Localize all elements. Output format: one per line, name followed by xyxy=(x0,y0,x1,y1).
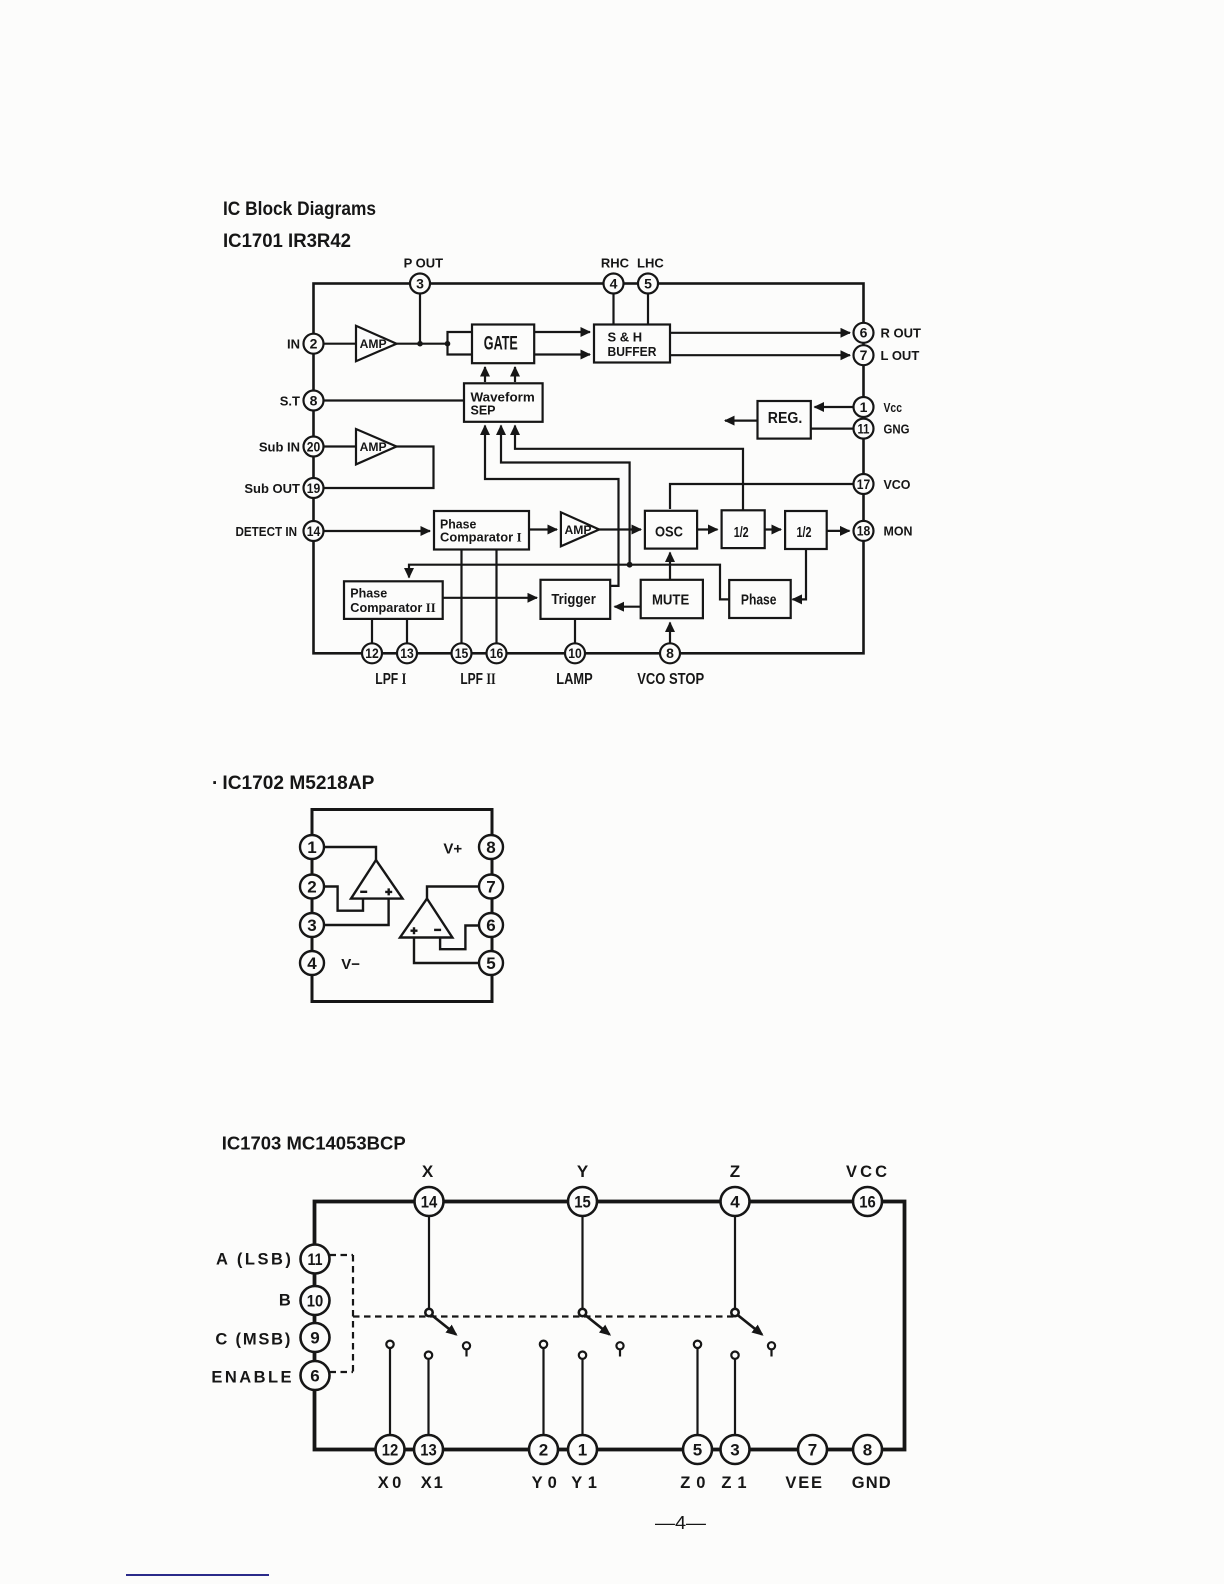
pin 8 GND xyxy=(853,1435,882,1464)
switch X arm xyxy=(432,1315,456,1334)
wire S&H BUFFER to pin6 R OUT xyxy=(670,332,850,334)
svg-text:V−: V− xyxy=(341,956,360,973)
svg-text:Comparator II: Comparator II xyxy=(350,600,435,615)
block OSC xyxy=(645,511,697,549)
svg-text:REG.: REG. xyxy=(768,410,803,427)
svg-text:VCC: VCC xyxy=(846,1163,887,1181)
pin 16 LPF II xyxy=(487,643,507,663)
svg-text:IC1702 M5218AP: IC1702 M5218AP xyxy=(222,773,374,794)
wire Phase Comparator I to AMP A3 xyxy=(529,528,557,530)
block REG. xyxy=(758,401,811,439)
IC1702 package outline xyxy=(312,810,492,1002)
svg-text:—4—: —4— xyxy=(655,1513,706,1533)
wire pin4 RHC drop to S&H xyxy=(612,293,614,325)
svg-text:2: 2 xyxy=(310,336,318,352)
svg-text:S & H: S & H xyxy=(608,330,643,345)
wire pin7 to op-amp U2 output apex xyxy=(427,887,480,899)
contact Z0 post xyxy=(694,1341,701,1437)
block MUTE xyxy=(641,580,703,618)
wire pin10 LAMP to Trigger bottom xyxy=(574,619,576,643)
svg-text:8: 8 xyxy=(486,838,495,857)
svg-text:X0: X0 xyxy=(378,1474,402,1492)
svg-text:VCO: VCO xyxy=(884,477,911,492)
pin 2 xyxy=(300,875,324,899)
svg-text:8: 8 xyxy=(310,392,318,408)
pin 10 LAMP xyxy=(565,643,585,663)
svg-text:Phase: Phase xyxy=(741,593,777,609)
wire pin4 Z stem xyxy=(734,1215,736,1309)
wire Phase Comparator II to pin13 xyxy=(406,619,408,643)
contact Y1 post xyxy=(579,1352,586,1437)
dashed control stub from pin 6 xyxy=(330,1371,354,1373)
pin 6 xyxy=(479,913,503,937)
switch Y throw terminal xyxy=(616,1342,623,1356)
wire pin8 VCO STOP to MUTE xyxy=(669,623,671,644)
pin 15 LPF II xyxy=(452,643,472,663)
svg-text:L OUT: L OUT xyxy=(881,348,920,363)
svg-text:5: 5 xyxy=(644,276,652,292)
op-amp U1 minus mark xyxy=(360,891,367,893)
wire pin1 Vcc to REG xyxy=(815,406,854,408)
pin 6 ENABLE xyxy=(301,1361,330,1390)
wire pin6 to op-amp U2 inverting input xyxy=(440,926,479,950)
pin 13 LPF I xyxy=(397,643,417,663)
svg-text:1: 1 xyxy=(578,1441,587,1460)
svg-text:IC Block Diagrams: IC Block Diagrams xyxy=(223,198,376,220)
svg-text:C (MSB): C (MSB) xyxy=(215,1331,290,1349)
svg-text:3: 3 xyxy=(307,916,316,935)
svg-text:IC1703 MC14053BCP: IC1703 MC14053BCP xyxy=(222,1132,406,1153)
wire GATE to S&H BUFFER lower xyxy=(534,353,590,355)
svg-text:6: 6 xyxy=(860,325,868,341)
amp A1 xyxy=(356,326,397,361)
svg-text:19: 19 xyxy=(307,480,321,496)
svg-text:11: 11 xyxy=(858,420,870,436)
svg-text:R OUT: R OUT xyxy=(881,326,922,341)
pin 4 xyxy=(300,951,324,975)
wire pin5 LHC drop to S&H xyxy=(647,293,649,325)
svg-text:11: 11 xyxy=(308,1250,323,1269)
svg-text:DETECT IN: DETECT IN xyxy=(236,524,298,539)
pin 3 P OUT xyxy=(410,274,430,294)
svg-text:GNG: GNG xyxy=(884,421,910,436)
block Waveform SEP xyxy=(464,383,543,422)
IC1701 boundary rectangle xyxy=(314,284,864,654)
svg-text:13: 13 xyxy=(400,645,414,661)
svg-text:Y1: Y1 xyxy=(571,1474,597,1492)
switch X throw terminal xyxy=(463,1342,470,1356)
switch Z pivot xyxy=(731,1309,738,1316)
block Phase Comparator I xyxy=(434,511,529,550)
wire divider top to Waveform SEP input c xyxy=(515,426,743,511)
pin 11 GNG xyxy=(854,419,874,439)
svg-text:GATE: GATE xyxy=(484,334,518,355)
pin 5 LHC xyxy=(638,274,658,294)
wire phase junction to Waveform SEP input b xyxy=(501,426,630,565)
svg-text:18: 18 xyxy=(857,523,871,539)
svg-text:P OUT: P OUT xyxy=(404,256,444,271)
svg-text:7: 7 xyxy=(860,347,868,363)
pin 3 Z1 xyxy=(721,1435,750,1464)
svg-text:B: B xyxy=(279,1292,291,1310)
footer rule (blue) xyxy=(126,1574,269,1576)
wire MUTE to OSC bottom xyxy=(669,553,671,580)
wire pin3 P OUT drop to A1 output xyxy=(419,293,421,344)
wire Phase Comparator I to pin16 xyxy=(495,550,497,644)
pin 17 VCO xyxy=(854,474,874,494)
pin 8 VCO STOP xyxy=(660,643,680,663)
svg-text:Y0: Y0 xyxy=(532,1474,557,1492)
wire divider 1/2 a to divider 1/2 b xyxy=(765,528,781,530)
svg-text:3: 3 xyxy=(730,1441,739,1460)
block divider 1/2 b xyxy=(785,511,827,549)
svg-text:Z: Z xyxy=(730,1162,740,1181)
svg-text:Vcc: Vcc xyxy=(884,400,903,415)
pin 18 MON xyxy=(854,521,874,541)
svg-text:LAMP: LAMP xyxy=(556,671,592,688)
svg-text:14: 14 xyxy=(307,523,321,539)
svg-text:A (LSB): A (LSB) xyxy=(216,1250,291,1268)
svg-text:20: 20 xyxy=(307,438,321,454)
wire pin11 GNG to REG xyxy=(811,428,854,430)
pin 9 C xyxy=(301,1323,330,1352)
contact Z1 post xyxy=(731,1352,738,1437)
svg-text:ENABLE: ENABLE xyxy=(211,1368,291,1386)
svg-text:16: 16 xyxy=(859,1193,876,1212)
svg-text:Z0: Z0 xyxy=(680,1474,705,1492)
pin 5 Z0 xyxy=(683,1435,712,1464)
wire Phase Comparator II to Trigger xyxy=(443,597,537,599)
svg-text:VCO STOP: VCO STOP xyxy=(637,671,704,688)
svg-text:12: 12 xyxy=(382,1441,399,1460)
svg-text:AMP: AMP xyxy=(565,523,592,537)
pin 4 Z xyxy=(721,1187,750,1216)
junction dot at phase feedback xyxy=(627,562,633,568)
block GATE xyxy=(472,325,534,364)
wire pin2 to AMP A1 input xyxy=(323,343,357,345)
svg-text:10: 10 xyxy=(568,645,582,661)
pin 11 A xyxy=(301,1245,330,1274)
svg-text:Sub OUT: Sub OUT xyxy=(244,481,300,496)
svg-text:16: 16 xyxy=(490,645,504,661)
wire divider 1/2 b to Phase block xyxy=(793,549,807,600)
pin 7 xyxy=(479,875,503,899)
pin 14 X xyxy=(415,1187,444,1216)
op-amp U1 xyxy=(351,860,403,899)
pin 1 Y1 xyxy=(568,1435,597,1464)
wire Trigger to Waveform SEP input a xyxy=(485,426,619,586)
switch Z arm xyxy=(738,1315,762,1334)
wire pin15 Y stem xyxy=(581,1215,583,1309)
pin 3 xyxy=(300,913,324,937)
block Trigger xyxy=(541,580,611,619)
wire Phase block feedback to Phase Comparator II xyxy=(409,565,729,600)
amp A3 xyxy=(561,512,599,546)
svg-text:4: 4 xyxy=(610,276,618,292)
svg-text:AMP: AMP xyxy=(360,440,387,454)
svg-text:3: 3 xyxy=(416,276,424,292)
svg-text:V+: V+ xyxy=(443,841,462,858)
svg-text:15: 15 xyxy=(574,1193,591,1212)
wire GATE to S&H BUFFER upper xyxy=(534,331,590,333)
svg-text:2: 2 xyxy=(539,1441,548,1460)
svg-text:2: 2 xyxy=(307,878,316,897)
contact X0 post xyxy=(386,1341,393,1437)
wire Waveform SEP to GATE arrow a xyxy=(484,367,486,382)
svg-text:Trigger: Trigger xyxy=(551,592,596,608)
wire S&H BUFFER to pin7 L OUT xyxy=(670,354,850,356)
pin 7 L OUT xyxy=(854,345,874,365)
svg-text:Z1: Z1 xyxy=(721,1474,746,1492)
wire pin2 to op-amp U1 inverting input xyxy=(324,887,363,911)
wire gate input split bracket xyxy=(448,332,473,355)
svg-text:7: 7 xyxy=(808,1441,817,1460)
svg-text:13: 13 xyxy=(420,1441,437,1460)
junction dot at P OUT tap xyxy=(417,341,423,347)
wire pin14 X stem xyxy=(428,1215,430,1309)
svg-text:Comparator I: Comparator I xyxy=(440,530,522,545)
svg-text:1/2: 1/2 xyxy=(797,524,812,541)
svg-text:1: 1 xyxy=(307,838,316,857)
svg-text:12: 12 xyxy=(365,645,379,661)
block Phase xyxy=(729,580,791,618)
svg-text:LPF I: LPF I xyxy=(375,671,406,688)
svg-text:X: X xyxy=(422,1162,434,1181)
svg-text:AMP: AMP xyxy=(360,337,387,351)
dashed control stub from pin 11 xyxy=(330,1254,354,1256)
block S&H BUFFER xyxy=(594,325,670,363)
svg-text:15: 15 xyxy=(455,645,469,661)
dashed control bus vertical xyxy=(352,1255,354,1372)
svg-text:VEE: VEE xyxy=(785,1474,822,1492)
svg-text:S.T: S.T xyxy=(280,393,300,408)
pin 15 Y xyxy=(568,1187,597,1216)
svg-text:6: 6 xyxy=(310,1367,319,1386)
svg-text:LHC: LHC xyxy=(637,256,664,271)
svg-text:MON: MON xyxy=(884,524,913,539)
IC1703 package outline xyxy=(315,1202,905,1450)
wire pin8 S.T to Waveform SEP xyxy=(323,399,465,401)
op-amp U2 plus mark xyxy=(411,927,418,934)
pin 1 Vcc xyxy=(854,397,874,417)
svg-text:IN: IN xyxy=(287,337,300,352)
svg-text:4: 4 xyxy=(307,954,317,973)
pin 10 B xyxy=(301,1286,330,1315)
pin 20 Sub IN xyxy=(304,437,324,457)
pin 7 VEE xyxy=(798,1435,827,1464)
wire Phase Comparator II to pin12 xyxy=(371,619,373,643)
wire Phase Comparator I to pin15 xyxy=(460,550,462,644)
pin 19 Sub OUT xyxy=(304,478,324,498)
pin 8 V+ xyxy=(479,835,503,859)
svg-text:8: 8 xyxy=(863,1441,872,1460)
svg-text:7: 7 xyxy=(486,878,495,897)
svg-text:4: 4 xyxy=(730,1193,740,1212)
block Phase Comparator II xyxy=(344,581,443,619)
wire AMP A1 output to gate input split xyxy=(396,343,448,345)
wire MUTE to Trigger xyxy=(615,606,641,608)
contact Y0 post xyxy=(540,1341,547,1437)
svg-text:LPF II: LPF II xyxy=(460,671,495,688)
pin 13 X1 xyxy=(414,1435,443,1464)
svg-text:17: 17 xyxy=(857,476,871,492)
wire pin20 Sub IN to AMP A2 xyxy=(323,445,357,447)
svg-text:OSC: OSC xyxy=(655,524,683,541)
wire divider 1/2 b to pin18 MON xyxy=(827,530,850,532)
svg-text:5: 5 xyxy=(486,954,495,973)
svg-text:6: 6 xyxy=(486,916,495,935)
wire pin17 VCO to OSC top xyxy=(670,484,854,509)
svg-text:1/2: 1/2 xyxy=(734,524,749,541)
op-amp U1 plus mark xyxy=(385,888,392,895)
svg-text:Y: Y xyxy=(577,1162,589,1181)
switch Y arm xyxy=(586,1315,610,1334)
pin 6 R OUT xyxy=(854,323,874,343)
dashed control line to switches xyxy=(353,1315,734,1317)
pin 1 xyxy=(300,835,324,859)
pin 5 xyxy=(479,951,503,975)
wire pin14 DETECT IN to Phase Comparator I xyxy=(323,530,431,532)
switch Z throw terminal xyxy=(768,1342,775,1356)
svg-text:5: 5 xyxy=(693,1441,702,1460)
switch X pivot xyxy=(425,1309,432,1316)
svg-text:8: 8 xyxy=(666,645,674,661)
wire AMP A2 output to pin19 Sub OUT xyxy=(323,447,434,489)
svg-text:GND: GND xyxy=(852,1474,891,1492)
wire REG output arrow xyxy=(725,420,758,422)
pin 14 DETECT IN xyxy=(304,521,324,541)
pin 16 VCC xyxy=(853,1187,882,1216)
amp A2 xyxy=(356,429,397,464)
svg-text:14: 14 xyxy=(421,1193,438,1212)
pin 2 IN xyxy=(304,334,324,354)
junction dot at gate split xyxy=(445,341,451,347)
op-amp U2 minus mark xyxy=(434,929,441,931)
svg-text:Sub IN: Sub IN xyxy=(259,439,300,454)
svg-text:10: 10 xyxy=(307,1292,324,1311)
wire Waveform SEP to GATE arrow b xyxy=(514,367,516,382)
svg-text:BUFFER: BUFFER xyxy=(608,344,657,359)
wire AMP A3 to OSC xyxy=(599,528,641,530)
switch Y pivot xyxy=(579,1309,586,1316)
pin 2 Y0 xyxy=(529,1435,558,1464)
block divider 1/2 a xyxy=(722,510,765,548)
svg-text:9: 9 xyxy=(310,1329,319,1348)
pin 12 X0 xyxy=(376,1435,405,1464)
wire pin5 to op-amp U2 non-inverting input xyxy=(414,938,480,964)
svg-text:RHC: RHC xyxy=(601,256,630,271)
pin 4 RHC xyxy=(604,274,624,294)
svg-text:X1: X1 xyxy=(421,1474,443,1492)
svg-text:1: 1 xyxy=(860,399,868,415)
svg-text:SEP: SEP xyxy=(471,402,496,417)
contact X1 post xyxy=(425,1352,432,1437)
svg-text:·: · xyxy=(212,773,218,794)
wire OSC to divider 1/2 a xyxy=(697,528,717,530)
op-amp U2 xyxy=(400,899,452,938)
wire pin1 to op-amp U1 output apex xyxy=(324,847,376,860)
wire pin3 to op-amp U1 non-inverting input xyxy=(324,899,389,925)
svg-text:MUTE: MUTE xyxy=(652,592,689,609)
svg-text:Phase: Phase xyxy=(350,586,387,601)
svg-text:IC1701 IR3R42: IC1701 IR3R42 xyxy=(223,230,351,252)
pin 12 LPF I xyxy=(362,643,382,663)
pin 8 S.T xyxy=(304,391,324,411)
